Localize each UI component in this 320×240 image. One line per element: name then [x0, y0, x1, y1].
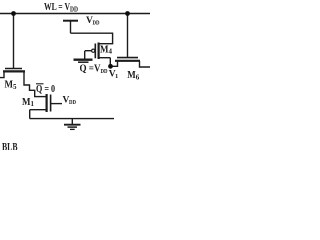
svg-text:DD: DD [70, 6, 78, 14]
svg-text:DD: DD [101, 68, 108, 75]
svg-text:Q = 0: Q = 0 [36, 84, 55, 95]
svg-text:1: 1 [115, 73, 118, 80]
svg-text:Q =V: Q =V [80, 64, 102, 75]
svg-text:6: 6 [136, 74, 140, 82]
svg-text:WL = V: WL = V [44, 2, 71, 13]
svg-text:DD: DD [93, 20, 100, 27]
svg-text:DD: DD [69, 99, 76, 106]
svg-text:1: 1 [31, 100, 35, 108]
svg-text:5: 5 [13, 83, 17, 91]
svg-text:BLB: BLB [2, 139, 18, 150]
svg-text:4: 4 [109, 48, 113, 56]
